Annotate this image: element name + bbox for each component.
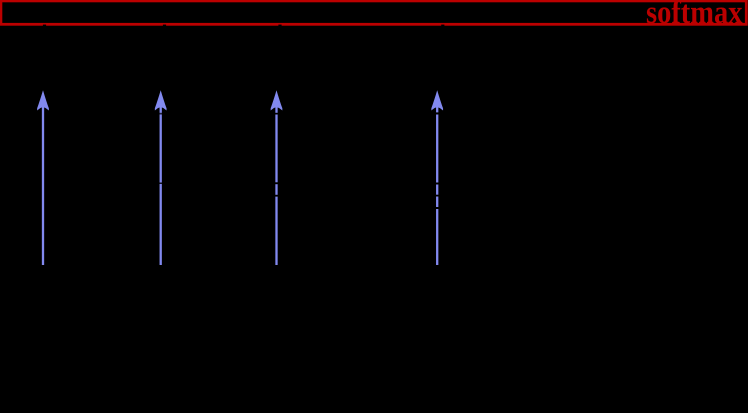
- svg-text:softmax: softmax: [646, 0, 743, 31]
